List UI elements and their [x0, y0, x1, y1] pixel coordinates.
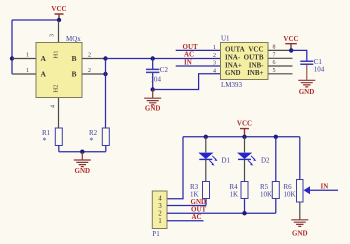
svg-text:104: 104 — [151, 76, 162, 84]
wire U1 pin4 to C2 bottom — [153, 74, 221, 90]
svg-text:10K: 10K — [260, 190, 272, 198]
svg-text:8: 8 — [273, 45, 276, 51]
svg-text:U1: U1 — [221, 35, 230, 43]
svg-text:OUTB: OUTB — [244, 53, 264, 61]
svg-text:IN: IN — [184, 58, 192, 66]
resistor R5 — [260, 137, 279, 213]
pin 7 U1 right — [268, 52, 293, 58]
wire P1 pin3 GND net — [167, 205, 206, 207]
ground (C2) — [144, 90, 161, 113]
svg-text:*: * — [43, 136, 47, 145]
svg-text:VCC: VCC — [283, 35, 298, 43]
capacitor C1 — [300, 58, 324, 80]
svg-text:GND: GND — [75, 167, 91, 175]
svg-text:IN: IN — [321, 182, 329, 190]
pin 4 (H2 bottom) — [51, 98, 59, 129]
pin 6 U1 right — [268, 60, 293, 66]
wire AC net (sensor B to U1 pin2) — [106, 58, 221, 60]
svg-text:INA+: INA+ — [225, 61, 242, 69]
svg-text:C2: C2 — [160, 66, 169, 74]
pin 1 (A bottom) — [12, 68, 36, 74]
resistor R1 — [42, 128, 62, 152]
svg-text:H2: H2 — [53, 85, 60, 93]
pin 2 (B bottom) — [82, 68, 106, 74]
pin 2 (B top) — [82, 53, 106, 59]
svg-text:10K: 10K — [284, 190, 296, 198]
svg-text:GND: GND — [292, 230, 308, 238]
wire LED rail — [183, 136, 300, 138]
pin 3 (H1 top) — [50, 21, 59, 43]
junction C2 top — [151, 56, 155, 60]
pin 1 (A top) — [12, 53, 36, 59]
wire rail to P1 pin4 — [167, 137, 183, 199]
wire left vertical to A pins — [11, 20, 13, 74]
wire P1 pin1 AC net — [167, 220, 204, 222]
svg-text:7: 7 — [273, 52, 276, 58]
svg-text:GND: GND — [225, 69, 241, 77]
wire B pins down to R2 — [105, 59, 107, 129]
resistor R2 — [89, 128, 109, 152]
op-amp U1 body — [221, 43, 269, 80]
power VCC (LED rail) — [237, 120, 252, 137]
junction B1 — [103, 56, 107, 60]
pin 8 U1 right — [268, 45, 291, 51]
junction left wire pin A1 — [10, 56, 14, 60]
junction at VCC stem — [57, 18, 61, 22]
svg-text:B: B — [72, 70, 77, 79]
svg-text:VCC: VCC — [51, 5, 66, 13]
LED D1 — [198, 137, 217, 182]
wire OUT stub to U1 pin1 — [176, 49, 221, 51]
svg-text:D2: D2 — [261, 157, 270, 165]
svg-text:1K: 1K — [230, 190, 239, 198]
svg-text:LM393: LM393 — [221, 81, 243, 89]
ground (C1) — [298, 80, 315, 96]
potentiometer R6 — [284, 137, 311, 202]
svg-text:A: A — [41, 54, 47, 63]
svg-text:2: 2 — [88, 53, 91, 59]
svg-text:B: B — [72, 54, 77, 63]
sensor U? MQx body — [36, 43, 82, 98]
svg-text:1: 1 — [213, 45, 216, 51]
svg-text:6: 6 — [273, 60, 276, 66]
svg-text:1: 1 — [158, 217, 162, 225]
svg-text:INA-: INA- — [225, 53, 241, 61]
resistor R3 — [190, 182, 210, 206]
capacitor C2 — [146, 59, 168, 90]
svg-text:*: * — [90, 136, 94, 145]
junction gnd — [80, 150, 84, 154]
svg-text:VCC: VCC — [248, 46, 263, 54]
svg-text:OUT: OUT — [183, 43, 199, 51]
svg-text:D1: D1 — [222, 157, 231, 165]
junction C2 bottom — [151, 87, 155, 91]
svg-text:A: A — [41, 70, 47, 79]
svg-text:MQx: MQx — [66, 35, 81, 43]
junction B2 — [103, 72, 107, 76]
svg-text:1: 1 — [26, 68, 29, 74]
junction rail R5 — [274, 135, 278, 139]
junction VCC pin8 — [289, 48, 293, 52]
svg-text:P1: P1 — [152, 230, 160, 238]
ground (sensor) — [74, 152, 91, 175]
svg-text:INB+: INB+ — [247, 69, 263, 77]
wire pin8 to C1 — [291, 50, 307, 60]
resistor R4 — [230, 182, 249, 214]
junction rail D1 — [204, 135, 208, 139]
svg-text:2: 2 — [88, 68, 91, 74]
LED D2 — [237, 137, 256, 182]
wire R1 to R2 bottoms — [59, 151, 106, 153]
svg-text:GND: GND — [145, 104, 161, 112]
svg-text:4: 4 — [213, 68, 216, 74]
wire IN to R6 wiper — [310, 189, 339, 191]
svg-text:1: 1 — [26, 53, 29, 59]
svg-text:3: 3 — [50, 34, 56, 37]
svg-text:OUTA: OUTA — [225, 46, 245, 54]
svg-text:2: 2 — [213, 53, 216, 59]
power VCC (U1) — [283, 35, 298, 50]
svg-text:3: 3 — [213, 61, 216, 67]
svg-text:INB-: INB- — [249, 61, 264, 69]
svg-text:104: 104 — [314, 66, 325, 74]
power VCC (sensor section) — [51, 5, 66, 20]
junction R4 OUT — [242, 211, 246, 215]
wire VCC to pin3 top — [12, 19, 59, 21]
wire P1 pin2 OUT net — [167, 212, 276, 214]
pin numbers U1 left — [213, 45, 216, 74]
connector P1 — [152, 191, 167, 229]
svg-text:GND: GND — [299, 88, 315, 96]
svg-text:5: 5 — [273, 68, 276, 74]
svg-text:H1: H1 — [53, 51, 60, 59]
svg-text:4: 4 — [51, 105, 57, 108]
ground (R6) — [291, 202, 308, 238]
svg-text:AC: AC — [192, 213, 202, 221]
junction rail VCC/D2 — [242, 135, 246, 139]
pin 5 U1 right — [268, 68, 293, 74]
svg-text:VCC: VCC — [237, 120, 252, 128]
wire IN stub to U1 pin3 — [176, 65, 221, 67]
svg-text:AC: AC — [184, 51, 194, 59]
